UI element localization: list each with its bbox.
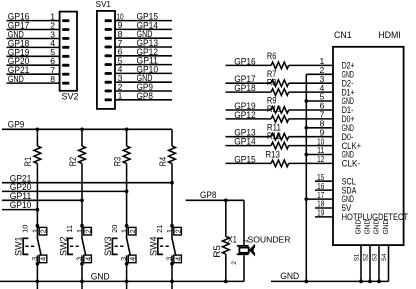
wire GP12 stub	[226, 118, 272, 120]
svg-text:21: 21	[155, 225, 164, 233]
svg-text:R13: R13	[265, 149, 280, 159]
junction SW1 bottom contact	[36, 262, 40, 266]
svg-text:1: 1	[75, 229, 84, 233]
wire stub below rail x82	[81, 281, 83, 289]
net label GP13	[234, 128, 256, 138]
label SW1	[14, 237, 24, 257]
wire CN1 pin 15 stub	[315, 180, 333, 182]
junction at GND rail x126	[125, 280, 129, 284]
pin number S1	[353, 253, 360, 261]
pin number 9	[118, 20, 123, 30]
wire SV2 pin 6 net GP20	[7, 64, 60, 66]
junction at GND rail x172	[170, 280, 174, 284]
pin name 11 of SW2	[65, 225, 74, 233]
svg-text:GP10: GP10	[10, 200, 32, 210]
wire R7 to CN1 pin 3	[289, 82, 333, 84]
resistor R5	[222, 237, 229, 255]
wire SV1 pin 4 net GP10	[115, 72, 172, 74]
net label GP17	[234, 74, 256, 84]
svg-text:X1: X1	[228, 235, 237, 245]
junction at GND rail x82	[80, 280, 84, 284]
wire R5 to GND rail	[225, 254, 227, 281]
pin name 5V pin 18	[342, 203, 352, 213]
wire SV1 pin 8 net GND	[115, 37, 172, 39]
wire SV1 pin 2 net GP9	[115, 90, 172, 92]
label R12	[267, 131, 281, 141]
net label GP11	[137, 56, 159, 66]
wire SW4 pin1 stub	[171, 226, 173, 238]
pin number 5	[50, 47, 55, 57]
pin number 3	[50, 29, 55, 39]
svg-text:2: 2	[83, 229, 92, 233]
svg-text:R2: R2	[68, 157, 78, 167]
wire SV2 pin 5 net GP19	[7, 55, 60, 57]
pin number 3	[319, 74, 324, 84]
pin name HOTPLUGDETECT pin 19	[342, 212, 409, 222]
svg-text:GND: GND	[353, 220, 362, 235]
actuator of SW2	[68, 238, 80, 254]
pin number 1	[50, 11, 55, 21]
pin name D2+ pin 1	[342, 61, 355, 71]
pin number 10	[317, 136, 324, 146]
svg-text:R4: R4	[158, 157, 168, 167]
junction GP8 at R5	[224, 198, 228, 202]
wire net GP20	[2, 190, 127, 192]
svg-text:2: 2	[173, 229, 182, 233]
label SW2	[58, 237, 68, 257]
pin number S3	[371, 253, 378, 261]
wire net GP10	[2, 209, 37, 211]
svg-text:SV2: SV2	[62, 92, 79, 102]
label R8	[267, 77, 277, 87]
pin name 20 of SW3	[110, 225, 119, 233]
svg-text:GND: GND	[8, 74, 24, 84]
junction GND rail S pin x370	[368, 280, 372, 284]
wire R11 to CN1 pin 9	[289, 136, 333, 138]
net label GP15	[137, 12, 159, 22]
wire SV2 pin 7 net GP21	[7, 73, 60, 75]
junction GND rail S pin x361	[359, 280, 363, 284]
net label GP14	[137, 20, 159, 30]
junction SW3 top contact	[125, 224, 129, 228]
pin number 17	[317, 190, 324, 200]
net label GP11	[10, 191, 32, 201]
pin name GND pin 2	[342, 70, 354, 80]
net label GND	[8, 74, 24, 84]
net label GP12	[234, 110, 256, 120]
pin pad 4 of SW2	[83, 255, 92, 263]
junction at GND rail x37	[36, 280, 40, 284]
pin name SDA pin 16	[342, 185, 357, 195]
svg-text:SOUNDER: SOUNDER	[248, 235, 291, 245]
net label GND	[8, 30, 24, 40]
pin number 1	[319, 56, 324, 66]
svg-text:R12: R12	[267, 131, 281, 141]
resistor R9	[271, 107, 289, 114]
sounder X1 body	[239, 248, 248, 253]
net label GP8	[200, 190, 217, 200]
wire SV1 pin 9 net GP14	[115, 28, 172, 30]
wire X1 pin2 to GND rail	[243, 255, 245, 281]
net label GP10	[137, 64, 159, 74]
junction SW4 top contact	[170, 224, 174, 228]
wire GP19 stub	[226, 109, 272, 111]
wire CN1 pin 16 stub	[315, 189, 333, 191]
svg-text:SW3: SW3	[103, 237, 113, 257]
wire SW3 pin1 stub	[126, 226, 128, 238]
pin number 7	[50, 65, 55, 75]
wire R10 to CN1 pin 7	[289, 118, 333, 120]
net label GP16	[8, 12, 30, 22]
pin number 4	[118, 64, 123, 74]
pin number 8	[319, 119, 324, 129]
resistor R11	[271, 133, 289, 140]
label R4	[158, 157, 168, 167]
pin number 2	[50, 20, 55, 30]
wire SW4 pin3 to ground rail	[171, 255, 173, 281]
label R11	[267, 122, 281, 132]
net label GP20	[10, 182, 32, 192]
net label GP10	[10, 200, 32, 210]
wire net GP21	[2, 182, 172, 184]
connector SV2 body	[60, 12, 77, 91]
wire SV2 pin 2 net GP17	[7, 29, 60, 31]
junction node at GP line x82	[80, 198, 84, 202]
junction node at GP line x37	[36, 208, 40, 212]
wire SV2 pin 3 net GND	[7, 38, 60, 40]
svg-text:S3: S3	[371, 253, 378, 261]
switch lever SW3	[126, 237, 130, 255]
net label GP20	[8, 56, 30, 66]
resistor R8	[271, 89, 289, 96]
pin number 1 of SW2	[75, 229, 84, 233]
svg-text:4: 4	[128, 257, 137, 261]
wire R4 to switch column	[171, 164, 173, 226]
switch lever SW2	[82, 237, 86, 255]
svg-text:1: 1	[243, 239, 250, 243]
ground label GND left	[91, 271, 110, 281]
svg-text:GP8: GP8	[200, 190, 217, 200]
pin number 19	[317, 208, 324, 218]
wire R9 to CN1 pin 6	[289, 109, 333, 111]
switch lever SW1	[37, 237, 41, 255]
pin name GND shield 2	[362, 220, 371, 235]
label SW3	[103, 237, 113, 257]
pin name GND shield 3	[371, 220, 380, 235]
connector CN1 box	[333, 47, 404, 245]
wire R8 to CN1 pin 4	[289, 91, 333, 93]
wire GP9 to R1	[36, 129, 38, 146]
pin name D0+ pin 7	[342, 114, 355, 124]
actuator of SW1	[23, 238, 35, 254]
net label GP19	[234, 101, 256, 111]
wire stub below rail x126	[126, 281, 128, 289]
svg-text:R6: R6	[267, 51, 277, 61]
pin pad 4 of SW3	[128, 255, 137, 263]
net label GP12	[137, 47, 159, 57]
svg-text:SW1: SW1	[14, 237, 24, 257]
pin name GND pin 11	[342, 150, 354, 160]
wire GP13 stub	[226, 136, 272, 138]
svg-text:HDMI: HDMI	[378, 30, 400, 40]
wire SV1 pin 5 net GP11	[115, 64, 172, 66]
label SOUNDER	[248, 235, 291, 245]
junction GND column pin 17	[304, 197, 308, 201]
wire SV1 pin 3 net GND	[115, 81, 172, 83]
pin number S2	[362, 253, 369, 261]
pin number 3 of SW4	[165, 257, 174, 261]
svg-text:10: 10	[21, 225, 30, 233]
pin number 7	[319, 110, 324, 120]
wire SV2 pin 4 net GP18	[7, 46, 60, 48]
wire R12 to CN1 pin 10	[289, 145, 333, 147]
net label GP18	[8, 38, 30, 48]
pin pad 4 of SW1	[39, 255, 48, 263]
svg-text:1: 1	[120, 229, 129, 233]
pin name SCL pin 15	[342, 176, 356, 186]
svg-text:4: 4	[83, 257, 92, 261]
wire SV2 pin 1 net GP16	[7, 20, 60, 22]
svg-text:19: 19	[317, 208, 324, 218]
pin name D1+ pin 4	[342, 87, 355, 97]
junction SW3 bottom contact	[125, 262, 129, 266]
resistor R2	[79, 146, 86, 164]
pin name D0- pin 9	[342, 132, 354, 142]
label R5	[212, 245, 222, 258]
svg-text:CLK-: CLK-	[342, 159, 361, 169]
wire SV1 pin 10 net GP15	[115, 20, 172, 22]
wire CN1 pin 8 GND	[306, 127, 333, 129]
pin number 5	[118, 55, 123, 65]
ground label GND right	[280, 271, 299, 281]
label SV2	[62, 92, 79, 102]
wire stub below rail x37	[36, 281, 38, 289]
wire SW1 pin3 to ground rail	[36, 255, 38, 281]
wire GP18 stub	[226, 91, 272, 93]
wire GP9 to R2	[81, 129, 83, 146]
pin number 3 of SW2	[75, 257, 84, 261]
svg-text:20: 20	[110, 225, 119, 233]
wire GP17 stub	[226, 82, 272, 84]
svg-text:SV1: SV1	[96, 0, 112, 9]
wire net GP11	[2, 199, 82, 201]
wire CN1 pin 11 GND	[306, 154, 333, 156]
pin number 3	[118, 73, 123, 83]
svg-text:GND: GND	[362, 220, 371, 235]
wire stub below rail x172	[171, 281, 173, 289]
wire GP9 to R3	[126, 129, 128, 146]
svg-text:GND: GND	[371, 220, 380, 235]
junction GND rail at column	[304, 280, 308, 284]
svg-text:R8: R8	[267, 77, 277, 87]
wire SW1 pin1 stub	[36, 226, 38, 238]
wire R2 to switch column	[81, 164, 83, 226]
svg-text:GP9: GP9	[8, 120, 25, 130]
net label GP9	[8, 120, 25, 130]
pin number 2	[319, 65, 324, 75]
resistor R7	[271, 80, 289, 87]
junction SW4 bottom contact	[170, 262, 174, 266]
pin number S4	[381, 253, 388, 261]
pin number 8	[50, 74, 55, 84]
wire CN1 shield pin S1	[360, 245, 362, 281]
pin number 16	[317, 181, 324, 191]
junction GND column pin 11	[304, 153, 308, 157]
resistor R12	[271, 142, 289, 149]
junction GP9 x37	[36, 127, 40, 131]
pin number 6	[319, 101, 324, 111]
pin pad 2 of SW1	[39, 227, 48, 235]
switch lever SW4	[172, 237, 176, 255]
label X1	[228, 235, 237, 245]
svg-text:11: 11	[65, 225, 74, 233]
pin pad 2 of SW2	[83, 227, 92, 235]
junction node at GP line x126	[125, 190, 129, 194]
net label GP18	[234, 83, 256, 93]
svg-text:GND: GND	[91, 271, 110, 281]
wire GND column vertical	[305, 74, 307, 281]
label R6	[267, 51, 277, 61]
svg-text:S4: S4	[381, 253, 388, 261]
pin number 1 of SW4	[165, 229, 174, 233]
label R7	[267, 69, 277, 79]
label SV1	[96, 0, 112, 9]
net label GP9	[137, 82, 154, 92]
wire SV1 pin 1 net GP8	[115, 99, 172, 101]
svg-text:GND: GND	[381, 220, 390, 235]
pin pad 2 of SW4	[173, 227, 182, 235]
pin name 21 of SW4	[155, 225, 164, 233]
label SW4	[148, 237, 158, 257]
svg-text:S1: S1	[353, 253, 360, 261]
svg-text:1: 1	[165, 229, 174, 233]
wire SV2 pin 8 net GND	[7, 82, 60, 84]
pin pad 2 of SW3	[128, 227, 137, 235]
label CN1	[334, 30, 352, 40]
net label GP21	[10, 173, 32, 183]
svg-text:R3: R3	[112, 157, 122, 167]
wire CN1 shield pin S3	[378, 245, 380, 281]
junction SW2 bottom contact	[80, 262, 84, 266]
svg-text:1: 1	[30, 229, 39, 233]
resistor R10	[271, 116, 289, 123]
svg-text:4: 4	[173, 257, 182, 261]
pin name CLK+ pin 10	[342, 141, 362, 151]
pin name GND pin 17	[342, 194, 354, 204]
junction node at GP line x172	[170, 181, 174, 185]
net label GND	[137, 73, 153, 83]
pin number 6	[50, 56, 55, 66]
pin number 10	[116, 11, 123, 21]
net label GP17	[8, 21, 30, 31]
pin name D2- pin 3	[342, 78, 354, 88]
label R9	[267, 96, 277, 106]
pin number 8	[118, 29, 123, 39]
wire CN1 pin 2 GND	[306, 73, 333, 75]
wire SV1 pin 7 net GP13	[115, 46, 172, 48]
wire GP16 stub	[226, 64, 272, 66]
wire GND rail left	[0, 280, 244, 282]
svg-text:SW4: SW4	[148, 237, 158, 257]
resistor R1	[34, 146, 41, 164]
pin number 4	[319, 83, 324, 93]
junction GND column pin 5	[304, 99, 308, 103]
pin number 1	[118, 91, 123, 101]
wire CN1 pin 5 GND	[306, 100, 333, 102]
resistor R4	[169, 146, 176, 164]
wire SV1 pin 6 net GP12	[115, 55, 172, 57]
wire R3 to switch column	[126, 164, 128, 226]
wire CN1 shield pin S2	[369, 245, 371, 281]
svg-text:1: 1	[118, 91, 123, 101]
net label GP15	[234, 154, 256, 164]
wire GP8 to R5	[225, 200, 227, 236]
wire net GP9 horizontal	[2, 128, 172, 130]
pin number 1 of SW3	[120, 229, 129, 233]
label R13	[265, 149, 280, 159]
pin number 1 of X1	[243, 239, 250, 243]
pin number 1 of SW1	[30, 229, 39, 233]
pin number 3 of SW1	[30, 257, 39, 261]
label R1	[23, 157, 33, 167]
label R2	[68, 157, 78, 167]
pin number 18	[317, 199, 324, 209]
svg-text:2: 2	[39, 229, 48, 233]
wire CN1 shield pin S4	[388, 245, 390, 281]
actuator of SW3	[112, 238, 124, 254]
svg-text:S2: S2	[362, 253, 369, 261]
pin name CLK- pin 12	[342, 159, 361, 169]
net label GP8	[137, 91, 154, 101]
svg-text:8: 8	[50, 74, 55, 84]
wire SW3 pin3 to ground rail	[126, 255, 128, 281]
svg-text:R10: R10	[267, 104, 281, 114]
pin name D1- pin 6	[342, 105, 354, 115]
pin number 2	[118, 82, 123, 92]
pin pad 4 of SW4	[173, 255, 182, 263]
svg-text:GND: GND	[280, 271, 299, 281]
wire CN1 pin 19 stub	[315, 216, 333, 218]
junction GND column pin 8	[304, 126, 308, 130]
resistor R13	[271, 160, 289, 167]
wire R1 to switch column	[36, 164, 38, 226]
sounder X1 horn	[249, 244, 259, 257]
wire SW2 pin1 stub	[81, 226, 83, 238]
wire R13 to CN1 pin 12	[289, 162, 333, 164]
pin number 6	[118, 47, 123, 57]
wire CN1 pin 18 stub	[315, 207, 333, 209]
net label GP21	[8, 65, 30, 75]
net label GP14	[234, 137, 256, 147]
pin number 5	[319, 92, 324, 102]
junction GP9 x126	[125, 127, 129, 131]
pin number 12	[317, 154, 324, 164]
pin name GND shield 1	[353, 220, 362, 235]
net label GP16	[234, 56, 256, 66]
svg-text:SW2: SW2	[58, 237, 68, 257]
pin name 10 of SW1	[21, 225, 30, 233]
resistor R6	[271, 62, 289, 69]
pin name GND pin 5	[342, 96, 354, 106]
pin name GND shield 4	[381, 220, 390, 235]
actuator of SW4	[158, 238, 170, 254]
svg-text:2: 2	[128, 229, 137, 233]
pin number 3 of SW3	[119, 257, 128, 261]
net label GP19	[8, 47, 30, 57]
wire net GP8	[186, 200, 244, 245]
pin number 7	[118, 38, 123, 48]
sounder X1 top plate	[237, 245, 249, 247]
